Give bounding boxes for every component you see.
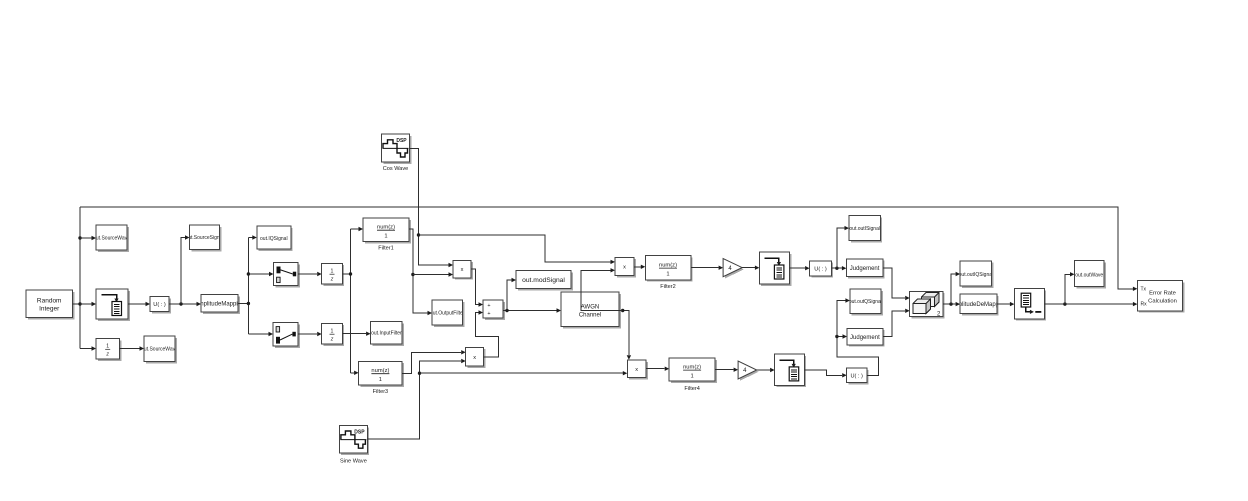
block To Workspace out.SourceWave (top) — [93, 225, 130, 252]
node junction Unbuffer out — [1063, 302, 1066, 305]
block Unbuffer — [1014, 289, 1046, 321]
wire branch to out.SourceWave1 — [80, 237, 92, 239]
block Error Rate Calculation — [1137, 281, 1184, 313]
wire riser to out.outIQSignal — [951, 274, 956, 304]
wire Filter4 to Gain2 — [715, 369, 734, 371]
wire Unit Delay1 to out.SourceWave2 — [120, 348, 140, 350]
svg-text:DSP: DSP — [354, 429, 365, 435]
wire Product2 output loop to Sum in2 — [476, 313, 499, 358]
svg-text:out.InputFilter: out.InputFilter — [371, 331, 402, 337]
wire riser to out.outQSignal — [837, 301, 846, 337]
wire Cos Wave output down to modulator — [410, 148, 449, 265]
block Product2 (Q x sin) — [466, 347, 486, 368]
svg-text:x: x — [473, 355, 476, 361]
wire Manual Switch1 to Unit Delay2 — [298, 273, 317, 275]
node junction AmplitudeMapping out — [247, 302, 250, 305]
wire AWGN branch back to demod product — [581, 270, 623, 310]
wire Selector2 to Judgement1 — [831, 267, 842, 269]
node junction trunk main — [78, 302, 81, 305]
svg-text:Random: Random — [37, 297, 62, 304]
wire Cos Wave branch to demodulator product — [419, 235, 611, 262]
svg-text:Channel: Channel — [579, 312, 601, 318]
svg-text:out.SourceSignal: out.SourceSignal — [185, 235, 223, 241]
node junction branch to Manual Switch1 — [247, 272, 250, 275]
block Selector3 U( : ) — [847, 368, 869, 384]
svg-text:num(z): num(z) — [371, 368, 389, 374]
wire AmplitudeDeMapping to Unbuffer — [997, 303, 1010, 305]
svg-text:out.outQSignal: out.outQSignal — [849, 299, 882, 305]
svg-text:U( : ): U( : ) — [153, 302, 166, 308]
block Sum (Add) — [483, 300, 505, 320]
wire into Filter1 — [351, 228, 359, 230]
block To Workspace out.outIQSignal — [959, 261, 994, 288]
svg-text:1: 1 — [331, 329, 334, 335]
block AmplitudeDeMapping — [950, 294, 1007, 315]
wire ProductD to Filter2 — [634, 266, 641, 268]
block To Workspace out.outISignal — [849, 216, 882, 243]
svg-text:z: z — [330, 337, 334, 343]
block Cos Wave (DSP sine source) — [382, 134, 412, 164]
wire Filter1 branch to Product1 — [413, 274, 449, 276]
svg-text:out.modSignal: out.modSignal — [522, 277, 565, 284]
wire Random Integer output to trunk — [73, 303, 81, 305]
node junction Cos Wave branch — [417, 233, 420, 236]
block Selector1 U( : ) — [150, 297, 171, 314]
block Judgement2 — [847, 328, 885, 346]
node junction Filter1 branch — [411, 273, 414, 276]
block Matrix Concatenate — [910, 291, 945, 318]
wire Judgement1 to Concatenate in1 — [883, 268, 905, 298]
wire riser to out.outISignal — [837, 228, 845, 268]
block Unit Delay2 1/z — [322, 263, 345, 286]
wire Unbuffer output to Error Rate Rx — [1044, 303, 1133, 305]
wire Concatenate to AmplitudeDeMapping — [943, 303, 956, 305]
block Product3 (demod x bottom) — [627, 360, 648, 379]
svg-text:Integer: Integer — [39, 305, 60, 312]
node junction AWGN out — [621, 309, 624, 312]
wire trunk bottom into Unit Delay1 — [80, 348, 92, 350]
wire Buffer1 to Selector1 — [128, 303, 146, 305]
svg-text:x: x — [635, 367, 638, 373]
svg-text:+: + — [487, 311, 490, 317]
block To Workspace out.IQSignal — [257, 226, 293, 251]
wire Sum output to AWGN — [503, 310, 557, 312]
svg-text:num(z): num(z) — [683, 364, 701, 370]
block Selector2 U( : ) — [810, 261, 834, 278]
wire Buffer2 to Selector2 — [790, 267, 805, 269]
block AWGN Channel — [561, 292, 621, 328]
block To Workspace out.outWave — [1075, 261, 1106, 289]
node junction after Selector1 — [179, 302, 182, 305]
block Product1 (I x cos) — [453, 260, 473, 279]
block Buffer3 — [775, 354, 807, 387]
svg-text:out.OutputFilter: out.OutputFilter — [430, 310, 465, 316]
svg-text:1: 1 — [379, 377, 382, 383]
svg-text:num(z): num(z) — [659, 262, 677, 268]
svg-text:Filter2: Filter2 — [660, 284, 676, 290]
svg-text:x: x — [623, 265, 626, 271]
wire branch to out.IQSignal — [248, 237, 252, 239]
svg-text:Filter3: Filter3 — [373, 389, 389, 395]
wire Manual Switch2 to Unit Delay3 — [298, 333, 317, 335]
wire Filter2 to Gain1 — [691, 267, 719, 269]
wire Filter3 output to Product2 — [402, 352, 461, 373]
wire branch to Manual Switch2 — [248, 333, 268, 335]
svg-text:1: 1 — [666, 272, 669, 278]
block Filter1 num(z)/1 — [363, 218, 411, 243]
wire AWGN output to Product3 (down arrow) — [619, 311, 629, 356]
block To Workspace out.InputFilter — [371, 322, 404, 346]
wire long run to Product3 — [420, 372, 623, 374]
node junction Sine riser — [418, 372, 421, 375]
wire Buffer3 to Selector3 with jog — [804, 370, 842, 375]
wire AmplitudeMapping output riser — [238, 238, 248, 335]
block To Workspace out.outQSignal — [849, 289, 883, 315]
svg-text:x: x — [461, 267, 464, 273]
block Buffer1 — [96, 289, 130, 321]
wire Product1 to Sum — [471, 269, 479, 305]
block To Workspace out.SourceWave (bottom) — [141, 336, 178, 363]
svg-text:U( : ): U( : ) — [850, 374, 863, 380]
svg-text:z: z — [105, 352, 109, 358]
svg-text:Error Rate: Error Rate — [1149, 291, 1176, 297]
block Sine Wave (DSP sine source) — [339, 426, 369, 455]
node junction Judgement2 input — [835, 335, 838, 338]
svg-text:+: + — [487, 303, 490, 309]
block Random Integer (source) — [26, 290, 74, 319]
wire riser to out.SourceSignal — [181, 238, 185, 305]
node junction trunk to out.SourceWave1 — [78, 236, 81, 239]
block Filter3 num(z)/1 — [359, 361, 404, 386]
block Manual Switch1 — [274, 263, 300, 288]
block Gain1 (triangle 4) — [723, 259, 744, 279]
block Manual Switch2 — [273, 323, 300, 348]
svg-text:1: 1 — [690, 374, 693, 380]
wire Unit Delay3 to out.InputFilter — [342, 333, 366, 335]
block Gain2 (triangle 4) — [738, 361, 758, 381]
block ProductD (demod x) — [615, 257, 636, 277]
svg-text:Sine Wave: Sine Wave — [340, 459, 367, 465]
svg-text:Filter1: Filter1 — [378, 246, 394, 252]
svg-text:out.outISignal: out.outISignal — [849, 226, 880, 232]
svg-text:U( : ): U( : ) — [814, 267, 827, 273]
svg-text:out.outWave: out.outWave — [1075, 272, 1103, 278]
block Unit Delay1 1/z — [96, 339, 121, 361]
wire Product3 to Filter4 — [646, 368, 665, 370]
wire branch to Manual Switch1 — [248, 273, 269, 275]
wire Selector1 to AmplitudeMapping — [169, 303, 197, 305]
svg-text:Cos Wave: Cos Wave — [383, 166, 409, 172]
block To Workspace out.OutputFilter — [430, 300, 465, 327]
wire Gain2 to Buffer3 — [757, 369, 770, 371]
wire Sine Wave output riser — [367, 361, 461, 439]
svg-text:out.SourceWave: out.SourceWave — [141, 347, 178, 353]
svg-text:out.outIQSignal: out.outIQSignal — [959, 272, 993, 278]
svg-text:Tx: Tx — [1141, 286, 1147, 292]
svg-text:DSP: DSP — [396, 138, 407, 144]
wire Unit Delay2 output with branches to Filter1 and Filter3 — [342, 229, 350, 373]
svg-text:Calculation: Calculation — [1148, 299, 1177, 305]
svg-text:1: 1 — [331, 269, 334, 275]
svg-text:1: 1 — [106, 344, 109, 350]
block Unit Delay3 1/z — [322, 323, 345, 346]
wire trunk vertical at x=80 — [79, 207, 81, 349]
svg-text:AWGN: AWGN — [581, 304, 599, 310]
node junction after Selector2 — [835, 267, 838, 270]
block To Workspace out.modSignal — [516, 271, 573, 291]
svg-text:out.IQSignal: out.IQSignal — [260, 236, 288, 242]
svg-text:Filter4: Filter4 — [684, 386, 700, 392]
node junction Concatenate out — [949, 302, 952, 305]
block Filter2 num(z)/1 — [645, 256, 692, 282]
wire Gain1 to Buffer2 — [742, 267, 755, 269]
svg-text:Judgement: Judgement — [850, 335, 880, 341]
block Filter4 num(z)/1 — [669, 358, 717, 383]
wire Selector3 loop to Judgement2 — [837, 337, 879, 376]
svg-text:z: z — [330, 277, 334, 283]
wire Judgement2 to Concatenate in2 — [883, 311, 905, 337]
wire Filter1 output down-branch — [409, 229, 428, 313]
svg-text:1: 1 — [384, 234, 387, 240]
block To Workspace out.SourceSignal — [185, 225, 223, 251]
svg-text:Rx: Rx — [1141, 302, 1148, 308]
wire long feedback top run to Error Rate Tx — [80, 207, 1133, 289]
wire into Buffer1 — [80, 303, 92, 305]
wire into Filter3 — [351, 372, 355, 374]
node junction Unit Delay2 out — [349, 272, 352, 275]
wire riser to out.modSignal — [507, 280, 512, 311]
block Buffer2 — [759, 252, 791, 286]
block Judgement1 — [846, 259, 884, 279]
block AmplitudeMapping — [195, 295, 245, 314]
svg-text:AmplitudeMapping: AmplitudeMapping — [195, 301, 245, 307]
wire riser to out.outWave — [1065, 274, 1070, 304]
svg-text:Judgement: Judgement — [850, 266, 880, 272]
svg-text:out.SourceWave: out.SourceWave — [93, 235, 130, 241]
svg-text:num(z): num(z) — [377, 224, 395, 230]
node junction Sum out — [505, 309, 508, 312]
